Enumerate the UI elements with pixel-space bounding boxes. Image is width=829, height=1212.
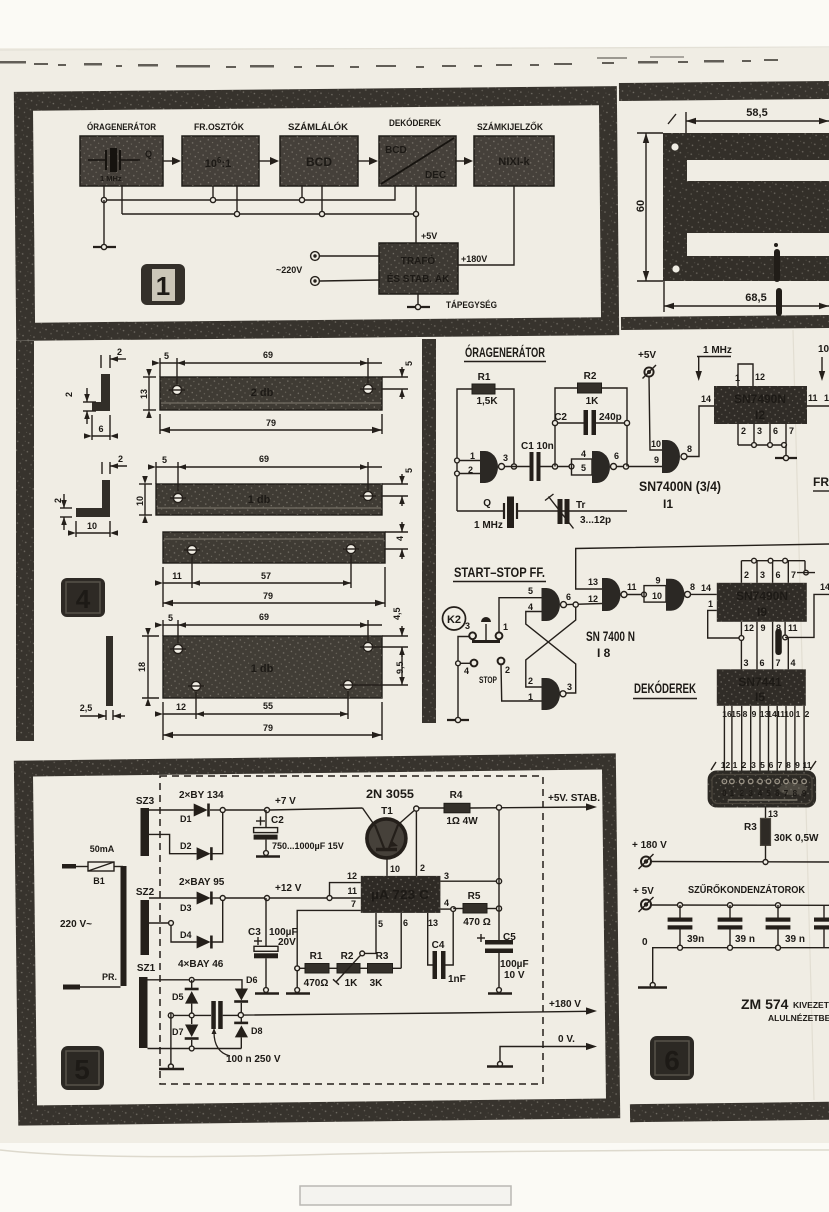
svg-text:2×BY 134: 2×BY 134 [179,790,224,801]
node gateC output [627,592,646,597]
svg-text:9: 9 [795,760,800,770]
svg-text:7: 7 [791,570,796,580]
svg-text:D8: D8 [251,1026,263,1036]
svg-text:TRAFÓ: TRAFÓ [401,254,436,267]
heading SZUROKONDENZATOROK [688,883,806,896]
svg-text:1: 1 [796,709,801,719]
transformer primary winding [63,866,127,990]
mains terminal 1 [311,252,379,261]
panel 4 left border bar [16,341,34,741]
svg-text:3: 3 [751,760,756,770]
svg-text:39 n: 39 n [785,934,805,945]
strip2 dim 10 left [135,476,152,523]
panel 5 frame border [14,753,620,1125]
svg-text:R2: R2 [584,371,597,382]
svg-text:1 db: 1 db [248,494,271,506]
ground under pin7 [286,988,310,994]
label 2xBY134 [179,790,224,801]
feedback wire to gateC pin13 [576,544,829,589]
svg-text:12: 12 [347,871,357,881]
svg-text:1 db: 1 db [251,663,274,675]
svg-text:R3: R3 [376,951,389,962]
wire +12V to IC pins 12 11 [327,883,361,901]
svg-text:4: 4 [76,584,91,614]
svg-text:+5V: +5V [638,350,656,361]
flipflop cross coupling wires [526,607,576,693]
svg-text:1: 1 [824,393,829,403]
svg-text:9: 9 [761,623,766,633]
capacitor C2 electrolytic [254,810,344,851]
svg-text:14: 14 [701,394,711,404]
svg-text:0: 0 [722,789,727,798]
svg-text:2: 2 [739,789,744,798]
svg-text:3...12p: 3...12p [580,515,611,526]
svg-text:D5: D5 [172,992,184,1002]
svg-text:68,5: 68,5 [745,292,766,304]
svg-text:2N 3055: 2N 3055 [366,787,414,801]
svg-text:B1: B1 [93,876,105,886]
figure stamp 5 [61,1046,104,1090]
arrow block1 to block2 [163,157,181,165]
svg-text:C3: C3 [248,927,261,938]
I2 bottom pins 2 3 6 7 [738,424,794,447]
svg-text:12: 12 [721,760,731,770]
capacitor 39n no1 [668,905,705,948]
svg-text:3: 3 [503,453,508,463]
nand gate FF-A pins 5 4 6 [528,586,571,621]
wire SZ1 line to ground [170,1013,172,1066]
svg-text:C1 10n: C1 10n [521,441,554,452]
svg-text:11: 11 [172,571,182,581]
terminal +5V [633,886,654,912]
capacitor C3 [248,898,298,989]
svg-text:R5: R5 [468,891,481,902]
node D3 D4 junction [220,896,267,901]
nand gate G2 pin 6 [592,451,619,483]
block DEKODEREK [379,117,456,186]
plate hole bottom-right [340,680,356,689]
capacitor C2 240p [552,410,629,435]
svg-text:69: 69 [259,612,269,622]
svg-text:6: 6 [776,570,781,580]
strip3 dim 4 right [385,522,408,559]
strip1 dim 79 [160,414,382,434]
trimmer Tr 3...12p [545,494,611,529]
terminal +5V [638,350,656,379]
svg-text:+ 180 V: + 180 V [632,840,667,851]
winding SZ3 [136,796,155,856]
wire +180V rail with arrow [244,999,598,1015]
svg-text:8: 8 [743,709,748,719]
title ORAGENERATOR [464,345,546,362]
wire left rail oscillator [457,389,472,511]
svg-text:60: 60 [635,200,647,212]
svg-text:1,5K: 1,5K [476,396,498,407]
switch contact 3 [469,632,476,639]
svg-text:3: 3 [748,789,753,798]
svg-text:3: 3 [744,658,749,668]
plate dim 79 [163,702,382,740]
dashed outline box [160,776,543,1084]
node +12V [265,883,330,901]
svg-text:R4: R4 [450,790,463,801]
svg-text:750...1000µF 15V: 750...1000µF 15V [272,841,344,851]
svg-text:+5V. STAB.: +5V. STAB. [548,793,600,804]
ink blob artifact [774,243,782,316]
svg-text:10: 10 [784,709,794,719]
label ~220V [276,265,302,275]
svg-text:39 n: 39 n [735,934,755,945]
svg-text:K2: K2 [447,614,461,626]
svg-text:1: 1 [156,271,170,301]
svg-text:1: 1 [708,599,713,609]
svg-text:10: 10 [818,344,829,355]
svg-text:10: 10 [390,864,400,874]
capacitor 39n no4 cut [814,905,829,948]
strip3 hole left [184,545,200,554]
wire +180V to display block [458,186,514,265]
svg-text:9: 9 [752,709,757,719]
block SZAMKIJELZOK [474,121,554,186]
bridge mid-right node [238,1013,243,1018]
U2 pin labels [347,863,449,929]
svg-text:10: 10 [651,439,661,449]
wire T1 base to pin10 [386,858,388,876]
strip1 top dims 5 69 5 [152,350,414,399]
svg-text:10: 10 [135,496,145,506]
fuse B1 50mA [62,844,123,886]
svg-text:6: 6 [760,658,765,668]
panel 1 frame border [14,86,619,341]
svg-text:DEKÓDEREK: DEKÓDEREK [634,681,696,696]
capacitor C5 [477,932,529,989]
svg-text:1: 1 [503,622,508,632]
svg-text:13: 13 [588,577,598,587]
svg-text:1: 1 [470,451,475,461]
wire +5V rail [651,903,829,908]
pushbutton plunger [472,617,500,642]
svg-text:4: 4 [528,602,533,612]
svg-text:1: 1 [735,373,740,383]
switch contact 1 [496,622,508,639]
wire C1 to gate2 [541,464,574,469]
svg-text:10: 10 [87,521,97,531]
block FR.OSZTOK [182,121,259,186]
svg-text:Tr: Tr [576,500,586,511]
strip3 dims 11 57 [155,555,351,607]
ground under bridge [159,1064,184,1069]
svg-text:8: 8 [687,444,692,454]
ground 0V [487,1062,513,1067]
svg-text:5: 5 [404,361,414,366]
svg-text:12: 12 [755,372,765,382]
dim 10 bottom of bracket B [68,521,118,537]
block ORAGENERATOR [80,121,163,186]
svg-text:2×BAY 95: 2×BAY 95 [179,877,225,888]
svg-text:100µF: 100µF [500,959,529,970]
socket pin holes [722,779,806,784]
svg-text:D4: D4 [180,930,192,940]
svg-text:SZÁMKIJELZŐK: SZÁMKIJELZŐK [477,121,543,132]
wire gateD to I9 pin14 [691,583,717,594]
svg-text:5: 5 [164,351,169,361]
svg-text:4: 4 [395,536,405,541]
svg-text:3K: 3K [370,978,384,989]
svg-text:6: 6 [769,760,774,770]
svg-text:0 V.: 0 V. [558,1034,575,1045]
node +7V [265,796,363,813]
figure stamp 6 [650,1036,694,1080]
node gate1 output [505,464,531,469]
label ZM574 [741,996,829,1023]
svg-text:SZÁMLÁLÓK: SZÁMLÁLÓK [288,121,349,132]
svg-text:5: 5 [168,613,173,623]
bridge top rail [148,977,243,988]
svg-text:R3: R3 [744,822,757,833]
svg-text:R1: R1 [310,951,323,962]
svg-text:13: 13 [428,918,438,928]
svg-text:6: 6 [98,424,103,434]
svg-text:KIVEZETÉS: KIVEZETÉS [793,1000,829,1010]
plate dim 9,5 right [354,647,408,685]
strip1 hole left [169,385,185,394]
nand gate G-D pin 8 [666,579,695,611]
svg-text:7: 7 [784,789,789,798]
svg-text:11: 11 [788,623,798,633]
svg-text:ZM 574: ZM 574 [741,996,789,1012]
IC I5 SN7441 [717,669,806,706]
PANEL 5 : power supply [14,753,620,1125]
diode D6 [234,975,257,1013]
svg-text:5: 5 [404,468,414,473]
ground under block1 [93,200,116,250]
svg-text:SN7490N: SN7490N [736,589,788,603]
strip2 top dims 5 69 5 [148,454,414,506]
svg-text:I9: I9 [757,605,767,619]
PANEL 4 : mechanical parts [16,339,436,741]
I5 top pin labels 3 6 7 4 [744,658,796,668]
svg-text:DEC: DEC [425,170,446,181]
svg-text:9: 9 [802,789,807,798]
svg-text:1K: 1K [345,978,359,989]
plate hole top-left [170,644,186,653]
IC pin7 wire to ground [295,910,361,990]
svg-text:12: 12 [744,623,754,633]
svg-text:9: 9 [654,455,659,465]
svg-text:6: 6 [614,451,619,461]
svg-text:T1: T1 [381,806,393,817]
svg-text:2: 2 [528,676,533,686]
heading DEKODEREK [633,681,697,699]
ground under K2 switch [447,717,469,722]
bridge mid-left nodes [168,1013,211,1018]
svg-text:79: 79 [263,723,273,733]
svg-text:2: 2 [744,570,749,580]
svg-text:4×BAY 46: 4×BAY 46 [178,959,224,970]
potentiometer R2 [329,951,365,989]
svg-text:2,5: 2,5 [80,703,93,713]
svg-text:BCD: BCD [385,145,407,156]
supply bus wires under blocks [104,186,416,243]
label 100n 250V with pointer [212,1028,281,1065]
svg-text:1 MHz: 1 MHz [100,174,122,183]
I2 top pins 1 12 [735,364,765,386]
node gateA output [567,602,603,607]
angle bracket section B [76,480,110,517]
PANEL 1 : block diagram [14,86,619,341]
strip2 hole right [360,491,376,500]
label PR. [102,972,117,982]
wire oscillator bottom rail [457,510,627,512]
resistor R3 30K [744,818,819,862]
svg-text:57: 57 [261,571,271,581]
dim 6 bottom of bracket A [84,415,118,440]
svg-text:5: 5 [74,1054,90,1085]
svg-text:79: 79 [266,418,276,428]
svg-text:4: 4 [444,898,449,908]
dim 2 left of bracket B [53,494,72,530]
label SN7400N (3/4) I1 [639,479,721,511]
node D1 D2 junction [220,808,267,813]
svg-text:1: 1 [730,789,735,798]
nand gate G1 pins 1 2 3 [468,451,508,483]
svg-text:2: 2 [805,709,810,719]
svg-text:D2: D2 [180,841,192,851]
svg-text:D3: D3 [180,903,192,913]
angle bracket section A [92,374,110,411]
transistor T1 2N3055 [363,787,417,858]
svg-text:1: 1 [528,692,533,702]
svg-text:D7: D7 [172,1027,184,1037]
svg-text:7: 7 [789,426,794,436]
nixie tube socket ZM574 [708,771,817,808]
svg-text:39n: 39n [687,934,704,945]
svg-text:SN 7400 N: SN 7400 N [586,629,635,644]
svg-text:4: 4 [581,449,586,459]
label SN7400N I8 [586,629,635,660]
wire R4 to +5V STAB arrow [470,793,600,811]
wire gate2 out to gate3 pin9 [654,455,659,465]
svg-text:ÓRAGENERÁTOR: ÓRAGENERÁTOR [465,345,545,360]
plate top dims 5 69 [155,612,382,643]
label +5V [421,231,437,241]
svg-text:55: 55 [263,701,273,711]
capacitor C4 [428,911,466,985]
svg-text:6: 6 [566,592,571,602]
arrow block4 to block5 [456,157,473,165]
svg-text:START–STOP FF.: START–STOP FF. [454,565,545,580]
resistor R5 [453,891,501,928]
diode D8 [234,1017,262,1049]
label 4xBAY46 [178,959,224,970]
1 MHz arrow [696,345,732,381]
wire node to pin2 [415,811,417,876]
svg-text:14: 14 [701,583,711,593]
svg-text:1 MHz: 1 MHz [703,345,732,356]
svg-text:11: 11 [347,886,357,896]
panel 2 top border bar [619,81,829,101]
diode D5 [172,980,199,1013]
svg-text:2: 2 [742,760,747,770]
strip1 dim 13 left [139,369,156,418]
crystal Q 1MHz [474,497,517,532]
bus junction nodes [101,197,418,216]
svg-text:I5: I5 [755,690,765,704]
panel 6 bottom border bar [630,1102,829,1122]
wire contact2 to gateB pin1 [501,664,542,701]
diode D4 [149,898,223,949]
svg-text:R2: R2 [341,951,354,962]
svg-text:13: 13 [139,389,149,399]
svg-text:+180 V: +180 V [549,999,581,1010]
supply terminal at I9 [797,561,815,575]
label TAPEGYSEG [446,300,497,310]
socket digit row 0-9 [722,789,807,798]
resistor R3 [360,951,401,989]
switch K2 circle [443,607,471,631]
svg-text:8: 8 [786,760,791,770]
rail strip 2db [160,377,382,410]
svg-text:2: 2 [505,665,510,675]
plate hole bottom-left [188,681,204,690]
svg-text:I1: I1 [663,497,673,511]
capacitor 39n no2 [718,905,755,948]
diode D2 [149,810,223,860]
block SZAMLALOK [280,121,358,186]
svg-text:3: 3 [465,621,470,631]
lamination hole top [671,143,678,150]
svg-text:15: 15 [731,709,741,719]
mains terminal 2 [311,277,379,286]
svg-text:1nF: 1nF [448,974,466,985]
I9 pin 1 wire [708,599,740,638]
ground under I2 [775,445,797,461]
svg-text:4,5: 4,5 [392,607,402,620]
bridge bottom rail [148,1046,242,1051]
svg-text:R1: R1 [478,372,491,383]
winding SZ2 [136,887,155,955]
svg-text:3: 3 [567,682,572,692]
IC I2 SN7490N [714,386,807,424]
svg-text:12: 12 [588,594,598,604]
switch contact 2 [498,658,510,675]
svg-text:6: 6 [664,1045,680,1076]
svg-text:SZŰRŐKONDENZÁTOROK: SZŰRŐKONDENZÁTOROK [688,883,806,896]
svg-text:8: 8 [690,582,695,592]
ink blob artifact I9 [775,629,782,655]
svg-text:D1: D1 [180,814,192,824]
winding SZ1 [137,963,156,1048]
I9 bottom pins 12 9 8 11 [739,622,798,670]
PANEL 2 : transformer lamination [619,81,829,330]
svg-text:1 MHz: 1 MHz [474,520,503,531]
svg-text:2: 2 [64,392,74,397]
wire pin3 [440,879,501,884]
svg-text:2: 2 [117,347,122,357]
capacitor 39n no3 [766,905,805,948]
wire +5V to gate3 pin10 [649,377,662,450]
plate dim 18 left [137,628,159,706]
svg-text:SZ1: SZ1 [137,963,156,974]
wire 0 rail [642,937,829,984]
I5 bottom pin wires [724,706,804,771]
svg-text:9: 9 [655,576,660,586]
wire R1 to gate1 output [495,389,514,467]
dimension 58,5 [668,107,829,133]
I5 bottom pin numbers 16 15 8 9 13 14 11 10 1 2 [722,709,809,719]
svg-text:11: 11 [627,582,637,592]
svg-text:SN7441: SN7441 [738,675,782,689]
